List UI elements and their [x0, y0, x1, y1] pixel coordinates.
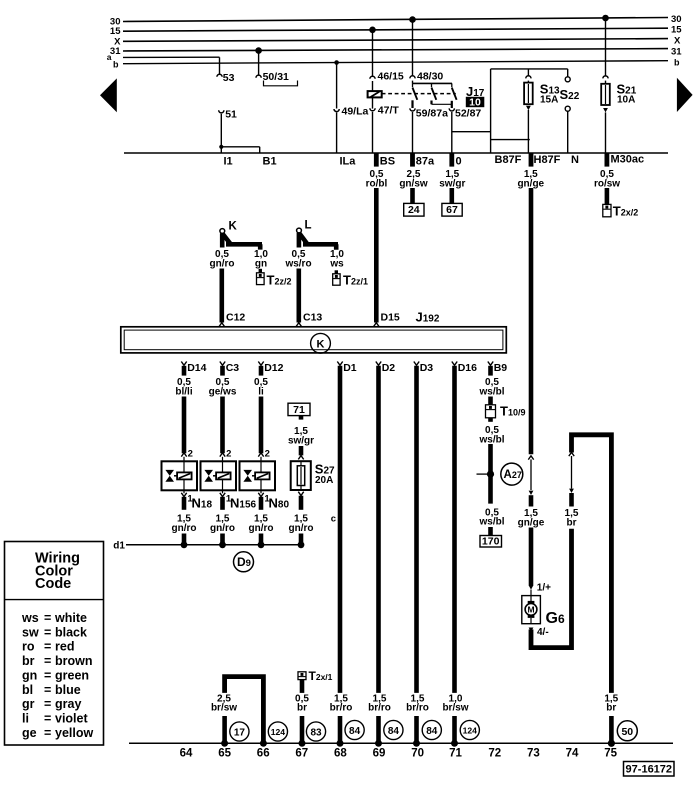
- wire 87a 2,5 gn/sw: [399, 169, 428, 203]
- svg-text:46/15: 46/15: [378, 71, 404, 83]
- wire branch 0 to B87F node: [452, 131, 491, 133]
- svg-text:D3: D3: [420, 362, 434, 374]
- wire D16 1,0 br/sw: [442, 366, 468, 747]
- svg-text:gn/ro: gn/ro: [210, 258, 235, 269]
- svg-text:br/sw: br/sw: [211, 703, 237, 714]
- svg-text:sw: sw: [22, 625, 39, 639]
- svg-text:BS: BS: [380, 156, 395, 168]
- pin D12: [258, 362, 283, 374]
- svg-text:Code: Code: [35, 576, 71, 592]
- wire 1,5 br label mid: [565, 452, 579, 528]
- svg-text:31: 31: [671, 46, 682, 57]
- wire D2 1,5 br/ro: [368, 366, 391, 747]
- wire H87F 1,5 gn/ge upper: [517, 169, 544, 454]
- connector T2x/1: [298, 669, 333, 683]
- terminal 48/30: [410, 71, 444, 84]
- svg-text:C3: C3: [226, 362, 240, 374]
- svg-text:=: =: [44, 625, 51, 639]
- svg-text:84: 84: [388, 726, 400, 737]
- svg-text:M: M: [527, 605, 534, 615]
- svg-text:ws/bl: ws/bl: [478, 434, 504, 445]
- wire 1,0 gn to T2z/2: [254, 249, 268, 269]
- pin D3: [414, 362, 433, 374]
- svg-text:ws/bl: ws/bl: [478, 386, 504, 397]
- svg-text:green: green: [55, 668, 89, 682]
- terminal 50/31 on bus 31: [255, 47, 297, 86]
- svg-text:50: 50: [621, 726, 633, 738]
- svg-text:48/30: 48/30: [417, 71, 443, 83]
- svg-text:sw/gr: sw/gr: [288, 435, 314, 446]
- svg-text:C12: C12: [226, 312, 245, 324]
- ground point 84: [345, 720, 364, 739]
- svg-text:A27: A27: [504, 469, 522, 481]
- terminal 46/15: [370, 71, 404, 92]
- wire bus30 to 48/30: [409, 16, 416, 76]
- off-page arrow left: [100, 78, 117, 112]
- wire bus 31: [110, 46, 682, 57]
- svg-text:D1: D1: [343, 362, 357, 374]
- svg-text:70: 70: [411, 748, 424, 760]
- svg-text:75: 75: [604, 748, 617, 760]
- ground point 83: [306, 722, 325, 741]
- valve N18 body: [162, 461, 198, 490]
- wire D3 1,5 br/ro: [406, 366, 429, 747]
- wire jumper 65 to 66 2,5 br/sw: [211, 677, 267, 747]
- pin D16: [452, 362, 477, 374]
- svg-text:ge: ge: [22, 726, 37, 740]
- svg-text:67: 67: [295, 748, 308, 760]
- svg-text:br: br: [567, 517, 577, 528]
- node 71: [288, 403, 310, 416]
- svg-text:gn: gn: [255, 258, 267, 269]
- svg-text:gn/ro: gn/ro: [210, 523, 235, 534]
- svg-text:gn/sw: gn/sw: [399, 178, 428, 189]
- svg-text:K: K: [229, 221, 238, 233]
- svg-text:blue: blue: [55, 683, 81, 697]
- current track rail: [129, 742, 673, 744]
- svg-text:=: =: [44, 640, 51, 654]
- wire bus a: [107, 52, 220, 62]
- svg-text:ro: ro: [22, 640, 35, 654]
- fuse S27 20A: [291, 456, 335, 496]
- pin C12: [219, 312, 245, 327]
- relay coil J17: [368, 91, 382, 97]
- svg-text:67: 67: [446, 204, 458, 216]
- wire 0,5 ws/bl to node 170: [478, 507, 504, 535]
- ground point 50: [617, 721, 637, 741]
- svg-text:I1: I1: [224, 156, 233, 168]
- svg-text:2: 2: [226, 449, 231, 460]
- svg-text:=: =: [44, 712, 51, 726]
- terminal 53 on bus a: [217, 57, 235, 84]
- svg-text:b: b: [674, 58, 680, 68]
- svg-text:L: L: [305, 220, 312, 232]
- connector T2z/1: [333, 270, 368, 287]
- svg-text:53: 53: [223, 72, 235, 84]
- valve N80 pin 2: [258, 449, 270, 473]
- wire 0,5 gn/ro K to C12: [210, 249, 235, 323]
- svg-text:30: 30: [671, 14, 682, 25]
- wire 59/87a to 87a: [412, 112, 414, 153]
- wire branch to H87F: [491, 139, 530, 141]
- ground point A27: [477, 463, 523, 485]
- svg-text:a: a: [107, 52, 112, 62]
- svg-text:yellow: yellow: [55, 726, 93, 740]
- svg-text:b: b: [113, 60, 119, 70]
- node 170: [480, 536, 502, 548]
- svg-text:H87F: H87F: [534, 154, 561, 166]
- svg-text:gn/ge: gn/ge: [518, 517, 545, 528]
- fuse S13 15A: [524, 69, 560, 110]
- svg-text:97-16172: 97-16172: [626, 764, 673, 776]
- wire bus15 to 46/15: [369, 27, 376, 77]
- svg-text:gray: gray: [55, 697, 81, 711]
- svg-text:124: 124: [271, 727, 286, 737]
- svg-text:83: 83: [310, 727, 322, 738]
- svg-text:64: 64: [180, 748, 193, 760]
- svg-text:31: 31: [110, 46, 121, 57]
- svg-text:br/ro: br/ro: [406, 703, 429, 714]
- terminal strip rail: [124, 152, 668, 154]
- svg-text:gr: gr: [22, 697, 35, 711]
- pin 4/- of G6: [529, 627, 549, 638]
- terminal 59/87a: [410, 108, 448, 120]
- ground point 124: [268, 722, 287, 741]
- svg-text:br/ro: br/ro: [368, 703, 391, 714]
- relay contact bar top: [413, 82, 453, 84]
- svg-text:68: 68: [334, 748, 347, 760]
- wire N156 1,5 gn/ro: [210, 497, 235, 548]
- svg-text:li: li: [22, 712, 29, 726]
- drawing number 97-16172: [624, 762, 675, 777]
- svg-text:gn/ro: gn/ro: [249, 523, 274, 534]
- svg-text:gn/ro: gn/ro: [289, 523, 314, 534]
- svg-text:c: c: [331, 514, 336, 525]
- wire 1,5 sw/gr to S27: [288, 416, 314, 456]
- svg-text:br: br: [606, 703, 616, 714]
- ground point 124 right: [460, 720, 479, 739]
- fuse socket S22: [560, 69, 580, 153]
- svg-text:red: red: [55, 640, 74, 654]
- svg-text:gn: gn: [22, 668, 37, 682]
- svg-text:52/87: 52/87: [455, 108, 481, 120]
- wire B9 0,5 ws/bl: [478, 366, 504, 405]
- svg-text:170: 170: [482, 536, 500, 548]
- svg-text:=: =: [44, 697, 51, 711]
- wire bus b: [113, 58, 680, 70]
- pin B9: [488, 362, 507, 374]
- off-page arrow right: [677, 78, 693, 112]
- svg-text:24: 24: [408, 204, 420, 216]
- svg-text:71: 71: [449, 748, 462, 760]
- terminal 47/T: [370, 97, 399, 116]
- wire bus 15: [110, 25, 682, 38]
- svg-text:51: 51: [225, 109, 237, 121]
- svg-text:ws/ro: ws/ro: [284, 258, 311, 269]
- wire bus 30: [110, 14, 682, 28]
- svg-text:ge/ws: ge/ws: [209, 386, 237, 397]
- wire M30ac 0,5 ro/sw: [594, 169, 638, 219]
- legend entries: [21, 611, 93, 740]
- valve N156 pin 1: [220, 479, 232, 504]
- pin D14: [181, 362, 206, 374]
- control unit J192 box: [121, 327, 507, 353]
- svg-text:59/87a: 59/87a: [416, 108, 448, 120]
- svg-text:2: 2: [188, 449, 193, 460]
- svg-text:B9: B9: [494, 362, 508, 374]
- svg-text:124: 124: [463, 725, 478, 735]
- pin C13: [296, 312, 322, 327]
- wire N18 1,5 gn/ro: [172, 497, 197, 548]
- wire 1,0 ws to T2z/1: [329, 249, 344, 269]
- legend wiring color code box: [5, 542, 104, 746]
- node K circle in J192: [311, 333, 331, 353]
- svg-text:ro/sw: ro/sw: [594, 178, 620, 189]
- wire top net to fuses: [491, 68, 568, 70]
- relay designation J17 with current track 10: [466, 84, 485, 109]
- svg-text:brown: brown: [55, 654, 93, 668]
- svg-text:84: 84: [426, 726, 438, 737]
- svg-text:D2: D2: [382, 362, 396, 374]
- svg-text:li: li: [258, 386, 264, 397]
- svg-text:gn/ro: gn/ro: [172, 523, 197, 534]
- svg-text:ws: ws: [329, 258, 344, 269]
- svg-text:66: 66: [257, 748, 270, 760]
- svg-text:15: 15: [671, 25, 682, 36]
- connector T2x/2: [603, 204, 611, 216]
- svg-text:D12: D12: [264, 362, 283, 374]
- wire node B87F vertical: [490, 69, 492, 153]
- wire D1 1,5 br/ro: [330, 366, 353, 747]
- wire 0,5 ws/ro L to C13: [284, 249, 311, 323]
- svg-text:D14: D14: [187, 362, 206, 374]
- svg-text:1/+: 1/+: [537, 583, 551, 594]
- svg-text:br/sw: br/sw: [442, 703, 468, 714]
- svg-text:K: K: [317, 338, 325, 350]
- svg-text:20A: 20A: [315, 475, 333, 486]
- svg-text:ILa: ILa: [340, 156, 357, 168]
- valve N18 pin 2: [181, 449, 193, 473]
- wire N80 1,5 gn/ro: [249, 497, 274, 548]
- svg-text:73: 73: [527, 748, 540, 760]
- wire S27 1,5 gn/ro: [289, 496, 314, 548]
- fuel pump G6: [522, 590, 565, 627]
- svg-text:50/31: 50/31: [263, 71, 289, 83]
- wire 0,5 ws/bl below T10/9: [478, 418, 504, 504]
- svg-text:br: br: [297, 703, 307, 714]
- wire G6 return U loop: [531, 529, 572, 648]
- valve N156 pin 2: [220, 449, 232, 473]
- svg-text:=: =: [44, 654, 51, 668]
- svg-text:D16: D16: [458, 362, 477, 374]
- svg-text:B1: B1: [263, 156, 277, 168]
- wire 67 0,5 br: [295, 680, 309, 747]
- svg-text:=: =: [44, 683, 51, 697]
- wire C3 0,5 ge/ws: [209, 366, 237, 453]
- svg-text:C13: C13: [303, 312, 322, 324]
- ground point 84: [422, 720, 441, 739]
- connector T2z/2: [257, 269, 292, 288]
- svg-text:G6: G6: [546, 610, 565, 627]
- wire 1,5 gn/ge to G6: [518, 456, 545, 590]
- pin D1: [337, 362, 356, 374]
- svg-text:D15: D15: [381, 312, 400, 324]
- svg-text:47/T: 47/T: [378, 105, 400, 117]
- pin D2: [376, 362, 395, 374]
- svg-text:black: black: [55, 625, 87, 639]
- relay contact lower stubs: [413, 100, 453, 108]
- wire 1,5 br to 75: [604, 693, 618, 747]
- svg-text:49/La: 49/La: [342, 106, 369, 118]
- node K: [220, 221, 262, 250]
- svg-text:69: 69: [373, 748, 386, 760]
- svg-text:17: 17: [234, 727, 246, 738]
- strip terminal labels: [224, 154, 645, 168]
- relay mechanical link dashed: [382, 93, 456, 95]
- svg-text:violet: violet: [55, 712, 88, 726]
- svg-text:sw/gr: sw/gr: [439, 178, 465, 189]
- svg-text:2: 2: [265, 449, 270, 460]
- valve N18 pin 1: [181, 479, 193, 504]
- svg-text:bl/li: bl/li: [175, 386, 192, 397]
- ground bus d1: [113, 541, 302, 552]
- wire 49/La from bus b to ILa: [334, 60, 369, 153]
- svg-text:71: 71: [293, 404, 305, 416]
- wire 0 1,5 sw/gr: [439, 169, 465, 203]
- svg-text:bl: bl: [22, 683, 33, 697]
- valve N156 body: [201, 461, 237, 490]
- svg-text:65: 65: [218, 748, 231, 760]
- svg-text:X: X: [674, 36, 681, 47]
- wire 47/T to BS: [372, 112, 374, 153]
- strip terminal ticks BS 87a 0 H87F M30ac: [374, 153, 609, 167]
- svg-text:74: 74: [566, 748, 579, 760]
- valve N80 body: [240, 461, 276, 490]
- svg-text:ro/bl: ro/bl: [366, 178, 388, 189]
- svg-text:4/-: 4/-: [537, 627, 549, 638]
- svg-text:br: br: [22, 654, 35, 668]
- svg-text:B87F: B87F: [495, 154, 522, 166]
- node L: [297, 220, 338, 250]
- svg-text:T2x/1: T2x/1: [309, 669, 333, 683]
- pin D15: [374, 312, 400, 327]
- current track numbers: [180, 748, 618, 760]
- fuse S21 10A: [601, 15, 637, 153]
- wire D14 0,5 bl/li: [175, 366, 192, 453]
- svg-text:15A: 15A: [540, 95, 558, 106]
- svg-text:ws: ws: [21, 611, 39, 625]
- wire bus X: [114, 36, 681, 48]
- svg-text:10: 10: [469, 96, 481, 108]
- relay contact blades: [413, 83, 457, 99]
- connector T10/9: [486, 404, 526, 419]
- svg-text:=: =: [44, 726, 51, 740]
- svg-text:87a: 87a: [416, 156, 435, 168]
- svg-text:ws/bl: ws/bl: [478, 517, 504, 528]
- wire S13 to H87F: [527, 110, 529, 153]
- svg-text:white: white: [54, 611, 87, 625]
- svg-text:d1: d1: [113, 541, 125, 552]
- ground point 84: [384, 720, 403, 739]
- svg-text:0: 0: [456, 156, 462, 168]
- terminal 52/87: [449, 108, 481, 120]
- svg-text:=: =: [44, 611, 51, 625]
- node 67: [442, 203, 462, 216]
- wire 52/87 to 0: [451, 112, 453, 153]
- svg-text:br/ro: br/ro: [330, 703, 353, 714]
- ground point D9: [234, 552, 254, 572]
- svg-text:M30ac: M30ac: [611, 154, 645, 166]
- ground point 17: [230, 722, 249, 741]
- svg-text:84: 84: [349, 726, 361, 737]
- svg-text:N: N: [571, 154, 579, 166]
- valve N80 pin 1: [258, 479, 270, 504]
- pin C3: [220, 362, 239, 374]
- node 24: [404, 203, 424, 216]
- wire BS 0,5 ro/bl to D15: [366, 169, 388, 323]
- svg-text:10A: 10A: [617, 94, 635, 105]
- svg-text:gn/ge: gn/ge: [517, 178, 544, 189]
- wire D12 0,5 li: [254, 366, 268, 453]
- terminal 51 feeding I1 and B1: [219, 109, 260, 154]
- svg-text:=: =: [44, 668, 51, 682]
- svg-text:D9: D9: [237, 555, 251, 569]
- wire brown loop top to track 75: [572, 435, 612, 693]
- svg-text:72: 72: [488, 748, 501, 760]
